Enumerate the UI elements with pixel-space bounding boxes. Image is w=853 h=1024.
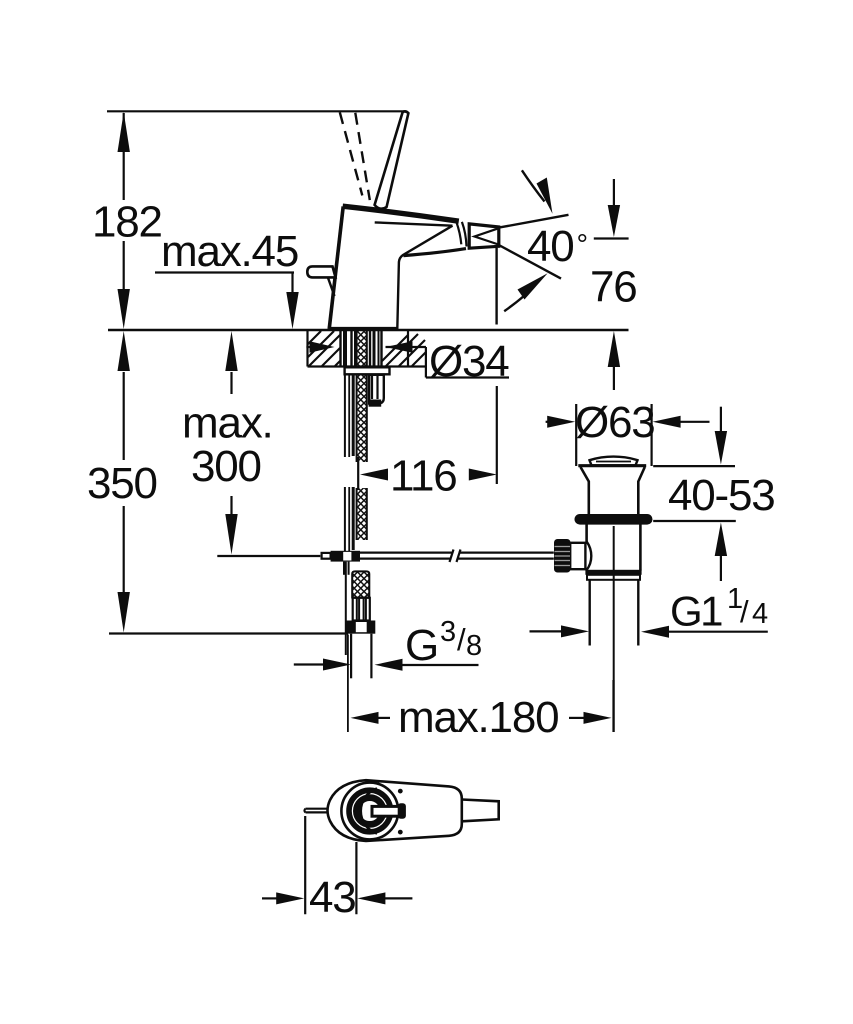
- rod tube below clamp: [343, 562, 345, 575]
- angle arc lower arrowhead: [518, 273, 548, 299]
- dim max.300 line lower: [230, 496, 232, 515]
- dim 116: [360, 386, 497, 484]
- mounting hardware right lines: [369, 331, 371, 367]
- svg-text:8: 8: [466, 630, 482, 662]
- body bottom band: [585, 570, 641, 575]
- braided hose upper: [356, 331, 367, 462]
- body thin ring: [587, 575, 640, 580]
- lever end bracket: [398, 803, 406, 819]
- 40-53 up arrow: [715, 523, 727, 557]
- svg-text:182: 182: [92, 198, 162, 247]
- 43 left arrow: [262, 897, 278, 899]
- knob shaft: [570, 543, 585, 569]
- dim 182 top extension line: [107, 110, 405, 112]
- top view body outline: [328, 780, 462, 841]
- body below o-ring right: [639, 525, 642, 571]
- dim 350 bottom reference line: [109, 632, 348, 634]
- deck slab right edge: [407, 330, 409, 367]
- rod horizontal double line segment 1: [360, 550, 554, 563]
- max.180 right arrow: [569, 717, 584, 719]
- knob body bulge: [587, 542, 592, 571]
- dim 40-53: [653, 407, 736, 581]
- bracket foot: [369, 400, 382, 407]
- spray cone lower line: [499, 245, 561, 279]
- 40-53 lower tick: [653, 520, 736, 522]
- pop-up knob on body: [307, 266, 335, 277]
- plug cap: [590, 457, 638, 466]
- pop-up knob stem: [328, 278, 335, 296]
- 40-53 upper tick: [653, 465, 735, 467]
- dim 43: [262, 816, 412, 914]
- Ø63 right extension line: [650, 404, 652, 466]
- dim 182 bottom arrow: [118, 289, 130, 329]
- pop-up rod guide bracket: [369, 375, 384, 404]
- cartridge ring: [349, 790, 391, 832]
- Ø34 leader riser: [425, 347, 427, 378]
- 76 upper tick: [594, 237, 629, 239]
- 76 lower line: [613, 366, 615, 390]
- dim Ø34 label: [306, 341, 509, 377]
- 40-53 down arrow: [715, 431, 727, 465]
- svg-text:4: 4: [752, 598, 768, 630]
- rod tube upper: [344, 375, 346, 458]
- pop-up rod vertical: [345, 562, 347, 655]
- hose below rod: [346, 571, 376, 678]
- rod break slashes: [450, 550, 454, 563]
- dim max.180: [351, 680, 614, 732]
- 116 extension line: [496, 386, 498, 484]
- knurled knob: [554, 539, 571, 573]
- label max.45 underline: [155, 271, 294, 273]
- spout tip extension line down: [495, 248, 497, 325]
- 40-53 upper line: [720, 407, 722, 432]
- washer plate under deck: [345, 367, 390, 374]
- svg-text:Ø34: Ø34: [429, 337, 509, 386]
- dim 76: [594, 179, 629, 390]
- svg-text:43: 43: [309, 873, 356, 922]
- 116 left arrowhead: [360, 469, 388, 481]
- angle arc upper: [522, 170, 545, 201]
- G1 1/4 left arrow line: [530, 630, 564, 632]
- max.300 down arrow: [225, 514, 237, 555]
- aerator end cap: [469, 224, 499, 248]
- G3/8 label underline with arrow: [398, 664, 479, 666]
- rod tube lower: [344, 487, 346, 551]
- hose end fitting: [353, 598, 370, 621]
- handle solid lever: [375, 111, 409, 208]
- top view spout: [462, 800, 499, 822]
- faucet body left edge: [329, 207, 343, 330]
- base left arc: [361, 789, 377, 834]
- svg-text:40-53: 40-53: [668, 471, 775, 520]
- body below o-ring left: [585, 525, 588, 543]
- flange top plate: [578, 464, 646, 467]
- 40-53 lower line: [720, 555, 722, 581]
- rod end fitting: [322, 553, 331, 559]
- dim 182 top arrow: [118, 112, 130, 152]
- max.180 right extension line: [612, 680, 614, 732]
- rod clamp block: [331, 551, 360, 562]
- deck line: [108, 329, 629, 332]
- svg-text:G1: G1: [670, 588, 722, 635]
- svg-text:max.180: max.180: [398, 693, 558, 742]
- faucet body top edge: [343, 206, 459, 221]
- 76 up arrow at deck: [608, 331, 620, 367]
- 116 right arrowhead: [469, 469, 497, 481]
- Ø63 left arrow: [546, 421, 550, 423]
- Ø63 right arrow: [678, 421, 710, 423]
- hose nut: [346, 621, 376, 634]
- Ø34 left arrow: [306, 346, 312, 348]
- screw dot top: [398, 789, 403, 794]
- tailpipe left: [589, 580, 591, 646]
- dim line 350 vertical: [123, 372, 125, 460]
- angle arc upper arrowhead: [537, 178, 553, 214]
- 43 right extension line: [355, 842, 357, 914]
- handle dashed position right line: [355, 113, 370, 200]
- Ø63 left extension line: [575, 404, 577, 466]
- braided hose lower segment: [356, 488, 367, 540]
- faucet body base edge: [329, 327, 398, 330]
- hose dark edge upper: [352, 375, 355, 457]
- angle arc lower: [504, 296, 524, 312]
- faucet inner diagonal face: [397, 226, 452, 329]
- dim 350 top arrow: [118, 331, 130, 371]
- svg-text:300: 300: [191, 442, 261, 491]
- deck slab bottom line: [308, 365, 427, 367]
- flange taper right: [638, 467, 645, 515]
- 43 right arrow: [383, 897, 412, 899]
- svg-text:max.: max.: [182, 399, 273, 448]
- screw dot bottom: [398, 830, 403, 835]
- Ø34 underline: [426, 376, 509, 378]
- deck hatching: [308, 331, 426, 366]
- Ø34 right arrow with leader: [386, 346, 427, 348]
- svg-text:76: 76: [590, 263, 637, 312]
- handle dashed position left line: [340, 112, 363, 195]
- 43 left extension line: [304, 816, 306, 914]
- 76 down arrow: [608, 205, 620, 237]
- max.45 down arrow: [286, 292, 298, 329]
- handle hub ring: [356, 798, 383, 825]
- G3/8 tail pipe: [350, 634, 352, 679]
- G3/8 right arrowhead: [375, 659, 403, 671]
- spray cone upper line: [499, 215, 569, 228]
- dim line 182 vertical: [123, 113, 125, 200]
- spout underside outer: [404, 249, 467, 256]
- hose centerline through break: [357, 457, 359, 490]
- svg-text:G: G: [405, 621, 438, 670]
- dim G1 1/4: [530, 625, 768, 637]
- faucet centerline lower: [347, 635, 349, 733]
- spout joint arcs: [456, 222, 461, 245]
- svg-text:350: 350: [87, 459, 157, 508]
- lever bar: [372, 806, 400, 816]
- 76 upper line: [613, 179, 615, 206]
- svg-text:Ø63: Ø63: [575, 398, 655, 447]
- G1 1/4 underline with arrow: [662, 631, 768, 633]
- max.45 drop line: [291, 273, 293, 295]
- svg-text:116: 116: [390, 452, 457, 501]
- tailpipe right: [637, 580, 639, 646]
- max.300 up arrow: [225, 331, 237, 371]
- hose dark edge lower: [352, 487, 355, 550]
- o-ring gasket: [575, 514, 653, 525]
- mounting hardware left lines: [339, 331, 341, 367]
- aerator V spray origin: [475, 228, 499, 244]
- flange taper left: [581, 467, 589, 515]
- dim G3/8 left arrow line: [294, 663, 327, 665]
- top view rod: [304, 809, 327, 813]
- drain centerline: [613, 526, 615, 732]
- svg-text:3: 3: [440, 616, 456, 648]
- pop-up rod horizontal left line: [217, 555, 320, 557]
- dim 350 bottom arrow: [118, 592, 130, 633]
- svg-text:max.45: max.45: [161, 227, 298, 276]
- deck slab left edge: [306, 330, 308, 367]
- base outer circle: [341, 783, 398, 840]
- dim max.300 line upper: [230, 372, 232, 394]
- dim Ø63: [546, 404, 710, 466]
- rod break: [459, 551, 554, 553]
- G3/8 left arrowhead: [323, 659, 351, 671]
- faucet body inner top line: [375, 222, 453, 225]
- max.180 left arrow: [351, 712, 379, 724]
